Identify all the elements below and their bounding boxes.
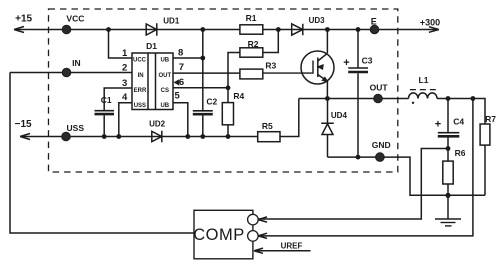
svg-text:UD4: UD4 bbox=[331, 111, 348, 120]
resistor R2 bbox=[240, 48, 263, 57]
svg-text:+: + bbox=[435, 119, 441, 131]
wire pin3 to C1 bbox=[104, 88, 132, 111]
svg-text:L1: L1 bbox=[419, 75, 429, 85]
svg-text:IN: IN bbox=[138, 73, 144, 79]
svg-text:C4: C4 bbox=[453, 116, 464, 126]
svg-text:R4: R4 bbox=[233, 91, 244, 101]
svg-text:C2: C2 bbox=[206, 96, 217, 106]
diode UD3 bbox=[292, 24, 303, 35]
svg-text:IN: IN bbox=[72, 58, 81, 68]
svg-text:6: 6 bbox=[179, 77, 184, 88]
svg-text:UB: UB bbox=[160, 57, 169, 63]
wire UREF bbox=[254, 250, 311, 252]
svg-text:+: + bbox=[343, 57, 349, 69]
diode UD1 bbox=[146, 23, 157, 35]
resistor R1 bbox=[240, 25, 263, 34]
svg-text:ERR: ERR bbox=[134, 88, 147, 94]
svg-text:USS: USS bbox=[134, 103, 146, 109]
pin6 arrow bbox=[175, 81, 178, 85]
svg-text:+300: +300 bbox=[420, 18, 440, 28]
svg-text:D1: D1 bbox=[146, 41, 157, 51]
IC D1 box bbox=[132, 53, 173, 110]
resistor R6 bbox=[447, 149, 449, 162]
wire pin8 bbox=[173, 30, 203, 59]
arrow +15 bbox=[14, 27, 24, 33]
wire pin5 bbox=[173, 103, 188, 137]
svg-text:UREF: UREF bbox=[281, 242, 303, 251]
svg-text:OUT: OUT bbox=[370, 83, 389, 93]
svg-text:8: 8 bbox=[178, 48, 183, 59]
wire R2 left to CS bbox=[228, 53, 240, 88]
svg-text:R3: R3 bbox=[265, 61, 276, 71]
wire pin1 drop bbox=[109, 30, 133, 59]
diode UD2 bbox=[152, 131, 162, 143]
svg-text:UD1: UD1 bbox=[163, 16, 180, 25]
diode UD4 bbox=[321, 99, 334, 158]
svg-text:R7: R7 bbox=[485, 114, 496, 124]
svg-text:2: 2 bbox=[122, 62, 127, 73]
node GND bbox=[376, 153, 385, 162]
svg-text:−15: −15 bbox=[15, 119, 32, 130]
arrow comp input 2 bbox=[258, 233, 267, 238]
svg-text:C1: C1 bbox=[101, 95, 112, 105]
svg-text:COMP: COMP bbox=[193, 226, 245, 244]
arrow -15 bbox=[20, 134, 30, 140]
wire OUT row bbox=[299, 98, 409, 100]
svg-text:UCC: UCC bbox=[133, 57, 147, 63]
wire out sense to comp bbox=[257, 99, 473, 236]
resistor R3 bbox=[240, 69, 263, 79]
resistor R5 bbox=[258, 132, 280, 142]
wire +15 rail left bbox=[14, 29, 240, 31]
capacitor C1 bbox=[95, 110, 115, 112]
svg-text:OUT: OUT bbox=[158, 73, 171, 79]
svg-text:E: E bbox=[371, 16, 377, 26]
wire IN bbox=[10, 72, 132, 74]
svg-text:CS: CS bbox=[161, 88, 169, 94]
wire R5 right riser bbox=[280, 99, 299, 137]
svg-text:+15: +15 bbox=[15, 14, 32, 25]
inductor L1 bbox=[409, 93, 438, 99]
capacitor C3 bbox=[357, 30, 359, 68]
wire pin7 bbox=[173, 72, 240, 74]
node OUT bbox=[374, 94, 383, 103]
svg-text:UD2: UD2 bbox=[149, 119, 166, 128]
wire C4/R6 node to comp bbox=[257, 149, 448, 220]
wire GND row bbox=[328, 157, 486, 195]
arrow comp input 1 bbox=[258, 217, 267, 222]
capacitor C2 bbox=[202, 58, 204, 110]
ground bbox=[435, 218, 461, 220]
svg-text:C3: C3 bbox=[362, 56, 373, 66]
svg-text:1: 1 bbox=[122, 48, 128, 59]
capacitor C4 bbox=[447, 99, 449, 133]
transistor Q1 bbox=[301, 51, 334, 84]
wire R2 right riser bbox=[263, 30, 279, 53]
svg-text:R2: R2 bbox=[248, 39, 259, 49]
node VCC bbox=[62, 25, 71, 34]
svg-text:5: 5 bbox=[175, 91, 181, 102]
resistor R7 bbox=[480, 124, 490, 145]
svg-text:R1: R1 bbox=[246, 13, 257, 23]
resistor R4 bbox=[227, 88, 229, 137]
wire after L1 bbox=[437, 99, 485, 125]
wire pin4 bbox=[119, 103, 132, 137]
node USS bbox=[62, 132, 71, 141]
svg-text:VCC: VCC bbox=[66, 14, 84, 24]
svg-text:4: 4 bbox=[122, 92, 128, 103]
svg-text:7: 7 bbox=[179, 62, 184, 73]
svg-text:UB: UB bbox=[160, 103, 169, 109]
wire pin6 CS bbox=[173, 87, 228, 89]
node IN bbox=[62, 68, 71, 77]
junction dots bbox=[106, 27, 111, 32]
comparator COMP box bbox=[194, 210, 253, 258]
wire +15 rail right bbox=[263, 29, 439, 31]
svg-text:UD3: UD3 bbox=[309, 16, 326, 25]
wire feedback left drop bbox=[10, 73, 194, 234]
svg-text:R6: R6 bbox=[455, 148, 466, 158]
dashed border frame bbox=[49, 9, 398, 172]
svg-text:GND: GND bbox=[372, 140, 391, 150]
svg-text:USS: USS bbox=[67, 123, 85, 133]
arrow +300 bbox=[429, 27, 439, 33]
node E bbox=[370, 25, 379, 34]
svg-text:R5: R5 bbox=[262, 121, 273, 131]
arrow UREF bbox=[254, 248, 263, 253]
wire USS rail bbox=[20, 136, 258, 138]
svg-text:3: 3 bbox=[122, 78, 127, 89]
